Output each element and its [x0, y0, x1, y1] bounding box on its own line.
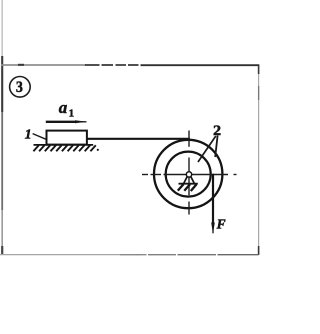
force F arrowhead [211, 223, 215, 235]
pulley outer circle [154, 140, 222, 208]
rope from block to pulley [87, 138, 190, 140]
ground surface line [34, 144, 94, 146]
svg-text:a: a [59, 98, 68, 117]
ground hatching [33, 145, 95, 151]
ground hatch dot [97, 149, 99, 151]
svg-text:3: 3 [16, 79, 23, 96]
leader line from 1 to block [33, 134, 49, 141]
leader from 2 to outer rim [215, 136, 217, 158]
pulley inner circle [166, 152, 211, 197]
problem number circle 3 [10, 77, 31, 98]
rope with force F [212, 174, 214, 226]
leader from 2 to inner circle [198, 136, 216, 162]
horizontal centerline [142, 174, 237, 176]
pivot hatching [178, 184, 197, 191]
acceleration arrow a1 [46, 121, 77, 123]
svg-text:1: 1 [69, 108, 75, 120]
pivot triangle legs [184, 176, 195, 183]
svg-text:1: 1 [25, 128, 32, 143]
svg-text:F: F [216, 216, 226, 231]
pivot base line [179, 183, 198, 185]
vertical centerline [188, 131, 190, 215]
pivot pin [186, 172, 191, 177]
block 1 [47, 131, 87, 145]
